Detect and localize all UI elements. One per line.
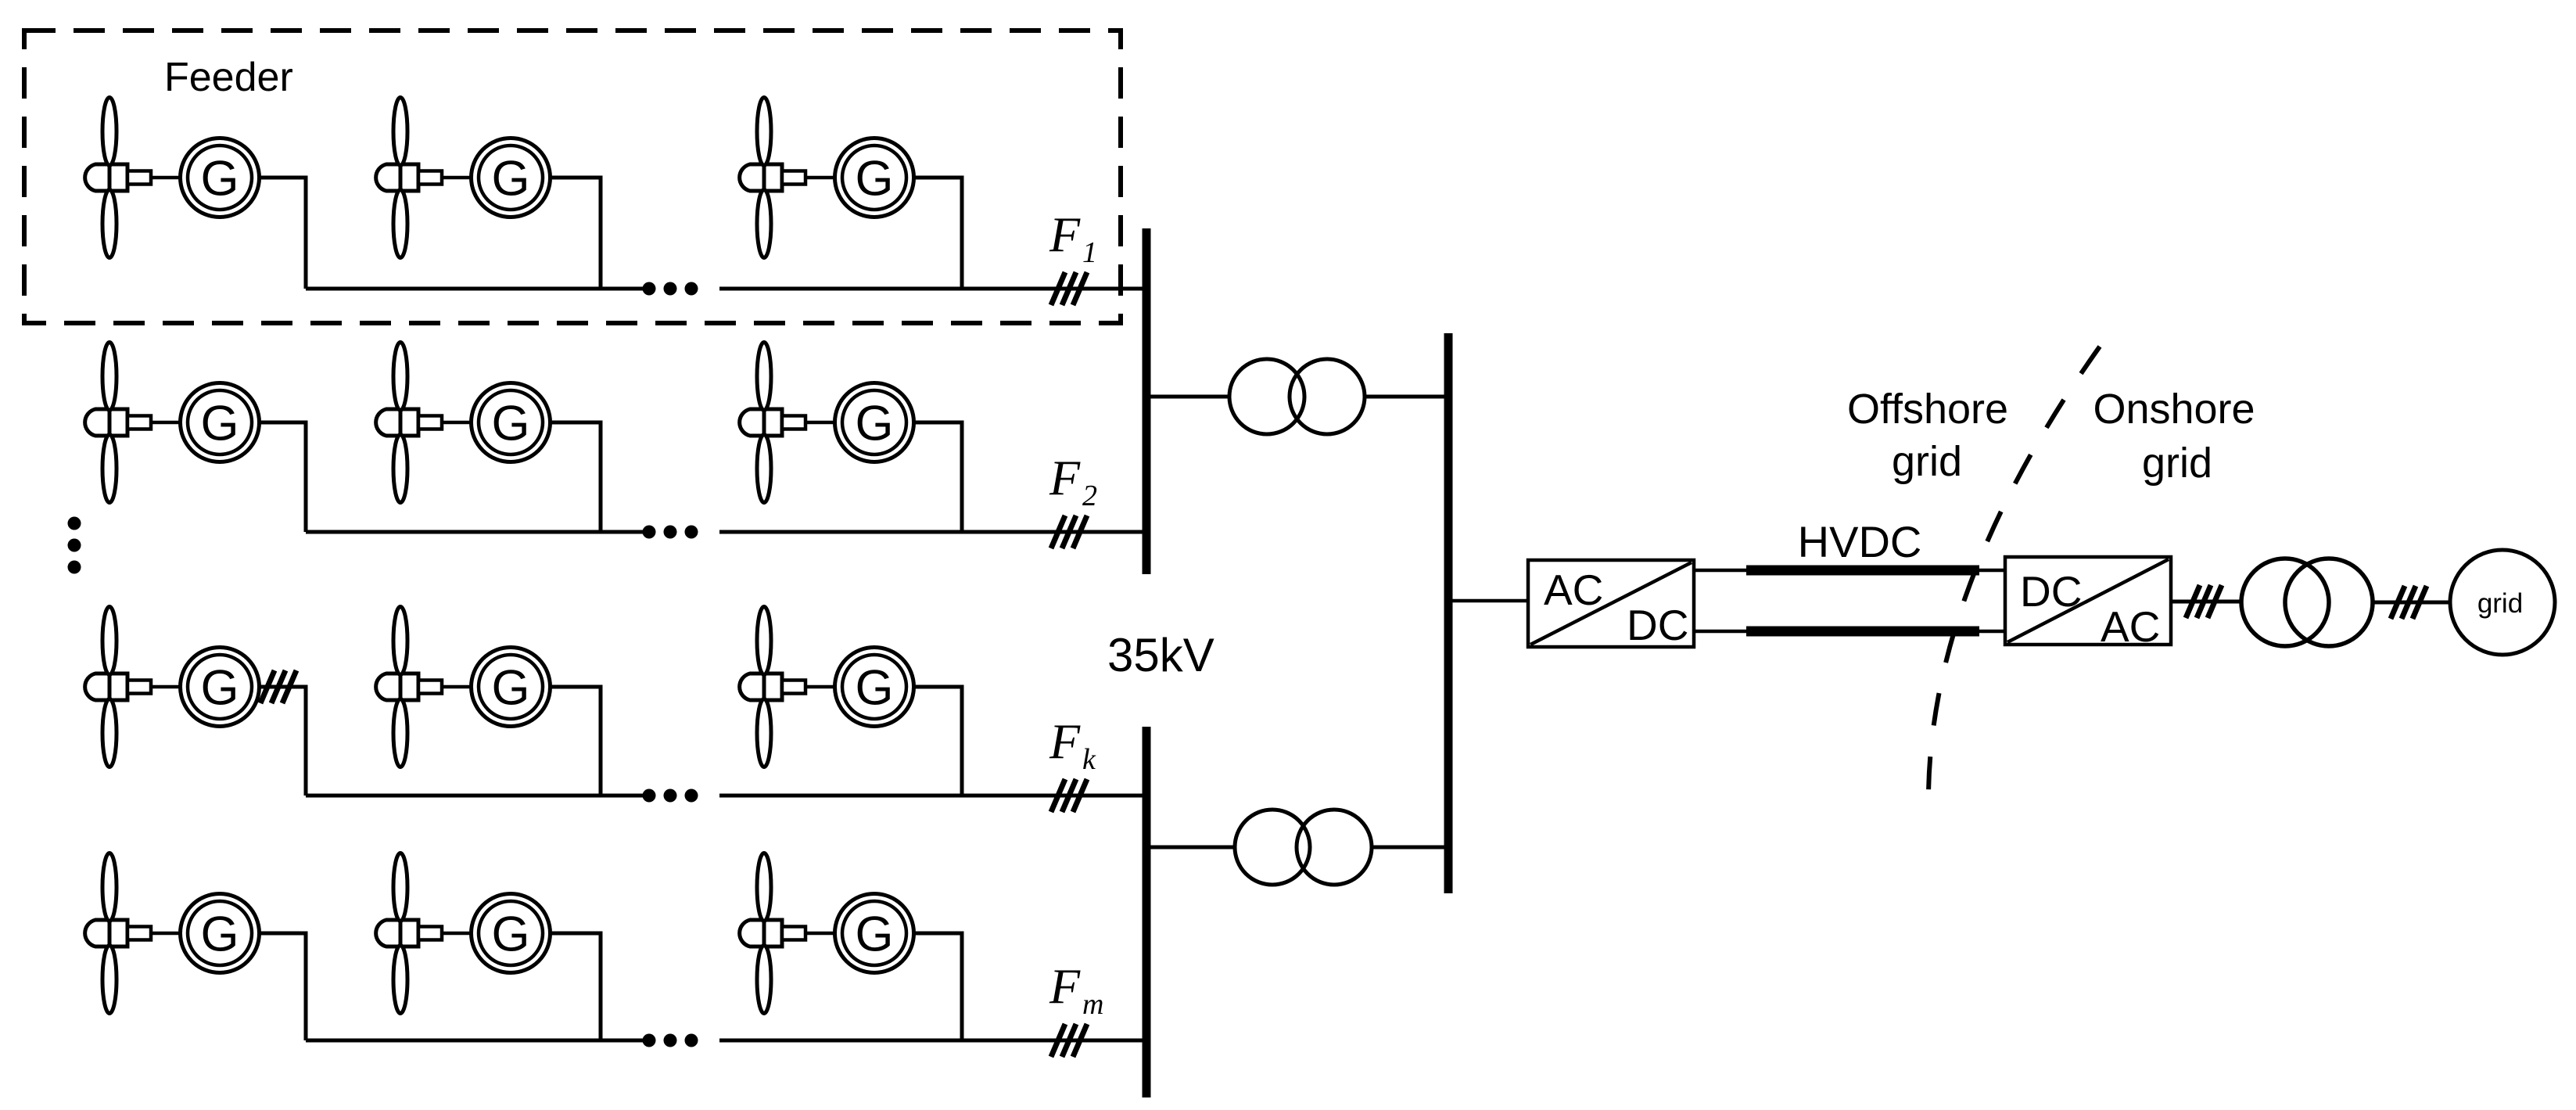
wire generator to feeder cable (feeder 1, unit 3)	[913, 178, 963, 289]
wire generator to feeder cable (feeder k, unit 2)	[549, 687, 601, 796]
generator G (feeder k, unit 3)	[835, 648, 914, 727]
wire generator to feeder cable (feeder k, unit 1)	[258, 687, 307, 796]
svg-text:k: k	[1082, 743, 1096, 776]
wind turbine rotor (feeder 1, unit 1)	[85, 98, 181, 258]
svg-text:35kV: 35kV	[1107, 629, 1214, 681]
transformer T2 (two overlapping circles)	[1235, 810, 1310, 885]
wire generator to feeder cable (feeder m, unit 3)	[913, 933, 963, 1040]
wind turbine rotor (feeder k, unit 1)	[85, 607, 181, 767]
wind turbine rotor (feeder m, unit 3)	[740, 853, 835, 1014]
three-phase slash marks onshore (right)	[2391, 586, 2427, 619]
wind turbine rotor (feeder k, unit 2)	[376, 607, 472, 767]
grid node circle	[2450, 550, 2555, 655]
wind turbine rotor (feeder 2, unit 3)	[740, 343, 835, 503]
svg-text:F: F	[1049, 713, 1081, 769]
generator G (feeder 1, unit 3)	[835, 138, 914, 217]
svg-text:AC: AC	[2101, 602, 2160, 651]
35kV bus bar upper	[1143, 228, 1151, 574]
generator G (feeder 1, unit 2)	[472, 138, 551, 217]
svg-text:AC: AC	[1544, 566, 1603, 614]
svg-text:Offshore: Offshore	[1847, 386, 2008, 433]
wind turbine rotor (feeder 1, unit 2)	[376, 98, 472, 258]
feeder cable F2 right segment to 35kV bus	[719, 530, 1146, 534]
generator G (feeder 2, unit 1)	[181, 383, 260, 462]
generator G (feeder 1, unit 1)	[181, 138, 260, 217]
wire transformer T1 to collector bus	[1364, 395, 1448, 399]
wind turbine rotor (feeder m, unit 2)	[376, 853, 472, 1014]
35kV bus bar lower	[1143, 727, 1151, 1097]
feeder cable Fm left segment	[306, 1039, 643, 1043]
vertical ellipsis (more feeders)	[68, 517, 81, 530]
three-phase slash marks onshore (left)	[2186, 585, 2222, 618]
three-phase slash marks on feeder Fm	[1051, 1024, 1087, 1057]
HVDC pole wire upper	[1694, 569, 2005, 573]
feeder cable F2 left segment	[306, 530, 643, 534]
wire generator to feeder cable (feeder 2, unit 2)	[549, 422, 601, 532]
wire generator to feeder cable (feeder 1, unit 1)	[258, 178, 307, 289]
wire collector bus to AC/DC converter	[1448, 599, 1528, 603]
HVDC cable upper (thick)	[1746, 566, 1979, 576]
generator G (feeder k, unit 2)	[472, 648, 551, 727]
feeder cable Fm right segment to 35kV bus	[719, 1039, 1146, 1043]
feeder boundary dashed box	[24, 31, 1121, 323]
dashed offshore/onshore boundary curve	[1928, 347, 2100, 809]
wire 35kV bus to transformer T1	[1146, 395, 1230, 399]
wire generator to feeder cable (feeder 2, unit 1)	[258, 422, 307, 532]
svg-text:grid: grid	[2142, 440, 2212, 487]
feeder cable F1 left segment	[306, 287, 643, 291]
converter U2 DC/AC box	[2005, 557, 2171, 645]
svg-text:2: 2	[1082, 480, 1097, 512]
svg-text:m: m	[1082, 988, 1103, 1021]
svg-text:HVDC: HVDC	[1798, 517, 1922, 566]
svg-text:DC: DC	[1627, 601, 1688, 649]
HVDC pole wire lower	[1694, 630, 2005, 634]
svg-text:Feeder: Feeder	[164, 55, 293, 100]
wire DC/AC converter to onshore transformer	[2171, 600, 2242, 604]
svg-text:F: F	[1049, 450, 1081, 505]
wind turbine rotor (feeder 2, unit 2)	[376, 343, 472, 503]
ellipsis dots on feeder F2	[643, 526, 656, 539]
three-phase slash marks on feeder Fk	[1051, 779, 1087, 812]
ellipsis dots on feeder Fk	[643, 789, 656, 803]
onshore transformer T3 (two overlapping circles)	[2241, 559, 2329, 646]
wire transformer T2 to collector bus	[1371, 846, 1448, 850]
transformer T1 (two overlapping circles)	[1229, 359, 1304, 434]
generator G (feeder m, unit 3)	[835, 894, 914, 973]
generator G (feeder 2, unit 3)	[835, 383, 914, 462]
svg-text:1: 1	[1082, 236, 1097, 269]
ellipsis dots on feeder F1	[643, 282, 656, 296]
HVDC cable lower (thick)	[1746, 627, 1979, 637]
converter U1 AC/DC box	[1528, 560, 1694, 647]
wind turbine rotor (feeder m, unit 1)	[85, 853, 181, 1014]
generator G (feeder 2, unit 2)	[472, 383, 551, 462]
three-phase slash marks after generator (feeder k, unit 1)	[260, 670, 296, 703]
generator G (feeder m, unit 1)	[181, 894, 260, 973]
feeder cable F1 right segment to 35kV bus	[719, 287, 1146, 291]
wire generator to feeder cable (feeder 1, unit 2)	[549, 178, 601, 289]
wire generator to feeder cable (feeder m, unit 1)	[258, 933, 307, 1040]
svg-text:grid: grid	[2477, 588, 2523, 619]
generator G (feeder m, unit 2)	[472, 894, 551, 973]
generator G (feeder k, unit 1)	[181, 648, 260, 727]
converter U2 diagonal	[2007, 559, 2169, 642]
wire generator to feeder cable (feeder k, unit 3)	[913, 687, 963, 796]
wind turbine rotor (feeder k, unit 3)	[740, 607, 835, 767]
wire onshore transformer to grid	[2373, 601, 2450, 605]
converter U1 diagonal	[1530, 562, 1692, 645]
three-phase slash marks on feeder F1	[1051, 272, 1087, 305]
ellipsis dots on feeder Fm	[643, 1034, 656, 1047]
svg-text:F: F	[1049, 207, 1081, 262]
svg-text:grid: grid	[1892, 438, 1962, 485]
wind turbine rotor (feeder 1, unit 3)	[740, 98, 835, 258]
svg-text:F: F	[1049, 958, 1081, 1014]
feeder cable Fk left segment	[306, 794, 643, 798]
three-phase slash marks on feeder F2	[1051, 515, 1087, 548]
feeder cable Fk right segment to 35kV bus	[719, 794, 1146, 798]
wire generator to feeder cable (feeder 2, unit 3)	[913, 422, 963, 532]
wind turbine rotor (feeder 2, unit 1)	[85, 343, 181, 503]
wire generator to feeder cable (feeder m, unit 2)	[549, 933, 601, 1040]
collector bus bar	[1444, 333, 1453, 893]
svg-text:DC: DC	[2020, 567, 2082, 616]
svg-text:Onshore: Onshore	[2093, 386, 2255, 433]
wire 35kV bus to transformer T2	[1146, 846, 1236, 850]
